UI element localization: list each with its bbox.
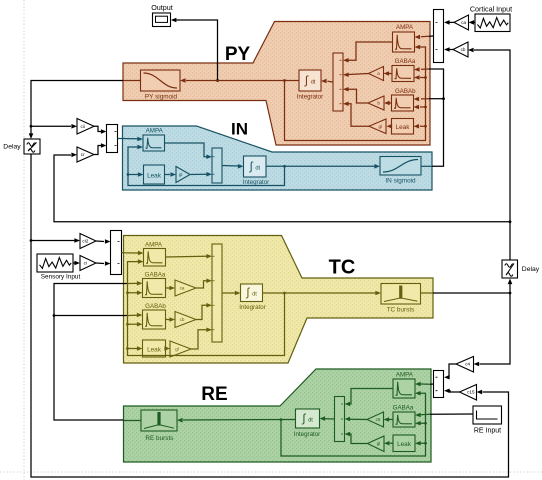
wire gain cb to PY mux in2 bbox=[450, 49, 454, 51]
mux/sum feeding PY AMPA (cortical + delayed TC) bbox=[434, 10, 444, 63]
gain gl (PY leak weight) bbox=[391, 125, 392, 127]
svg-text:GABAa: GABAa bbox=[395, 58, 416, 65]
svg-text:RE: RE bbox=[201, 384, 227, 405]
wire RE GABAa in1 from RE Input bbox=[421, 413, 431, 416]
block IN AMPA synapse bbox=[143, 135, 165, 151]
block Sensory Input noise source bbox=[37, 254, 73, 272]
wire PY GABAa gain to sum in2 bbox=[349, 74, 369, 75]
wire PY sigmoid output to left bus bbox=[31, 81, 123, 134]
gain cb TC (GABAb weight) bbox=[166, 319, 170, 321]
wire RE feedback tap GABAa in2 bbox=[424, 422, 427, 425]
block Delay right (transport delay) bbox=[502, 260, 518, 278]
gain gl TC (leak weight) bbox=[165, 348, 166, 350]
wire IN feedback bus bbox=[283, 165, 286, 168]
block RE AMPA synapse bbox=[393, 379, 415, 398]
svg-text:AMPA: AMPA bbox=[396, 371, 414, 378]
gain ci2 (delayed PY to TC) bbox=[80, 234, 96, 249]
gain ci (sensory to TC) bbox=[80, 256, 96, 271]
wire TC feedback bus bbox=[128, 262, 285, 356]
wire IN sigmoid output up to PY GABAa input bbox=[429, 69, 444, 166]
wire IN sum output to integrator bbox=[222, 165, 238, 168]
svg-text:ci2: ci2 bbox=[82, 239, 88, 244]
gain c5 RE (GABAa weight) bbox=[389, 419, 393, 421]
block PY AMPA synapse bbox=[393, 32, 415, 52]
svg-text:gl: gl bbox=[377, 441, 381, 446]
wire RE AMPA in1 from mux bbox=[421, 383, 431, 385]
svg-text:c15: c15 bbox=[467, 390, 475, 395]
block PY Integrator bbox=[299, 70, 321, 91]
block RE Input step source bbox=[473, 406, 502, 424]
wire branch RE to TC GABAb input bbox=[53, 314, 56, 317]
wire RE mux output to RE AMPA in1 bbox=[430, 383, 434, 385]
svg-text:cb: cb bbox=[461, 47, 466, 52]
wire TC feedback tap GABAb in2 bbox=[126, 323, 129, 326]
wire PY feedback tap GABAb in2 bbox=[424, 106, 427, 109]
wire gain cii to IN mux in1 bbox=[94, 126, 101, 131]
svg-text:Sensory Input: Sensory Input bbox=[41, 274, 81, 281]
wire gain ci2 to TC mux in1 bbox=[96, 240, 104, 243]
gain gl RE (leak weight) bbox=[390, 442, 393, 444]
wire TC sum output to integrator bbox=[222, 292, 235, 294]
block PY GABAa synapse bbox=[392, 66, 414, 82]
wire gain cr to IN mux in2 bbox=[94, 146, 101, 155]
svg-text:a: a bbox=[377, 71, 380, 76]
wire PY feedback tap GABAa in2 bbox=[424, 76, 427, 79]
wire RE integrator output to RE bursts bbox=[183, 419, 296, 422]
svg-text:Delay: Delay bbox=[522, 266, 540, 273]
wire branch PY output to gain cii (IN input) bbox=[30, 125, 33, 128]
region IN (interneuron population) background bbox=[123, 126, 433, 190]
wire RE feedback bus bbox=[281, 393, 426, 456]
svg-text:Integrator: Integrator bbox=[294, 431, 320, 438]
svg-text:dt: dt bbox=[252, 292, 257, 298]
wire branch IN output to PY GABAb input bbox=[442, 97, 445, 100]
block TC GABAa synapse bbox=[143, 279, 166, 298]
svg-text:gl: gl bbox=[175, 347, 179, 352]
wire IN feedback tap Leak input bbox=[127, 173, 130, 176]
page boundary dotted line horizontal bbox=[0, 471, 542, 473]
svg-text:Leak: Leak bbox=[147, 173, 162, 180]
block IN Leak bbox=[144, 165, 165, 184]
region RE (reticular population) background bbox=[124, 369, 432, 462]
block IN sigmoid bbox=[380, 157, 421, 176]
wire TC feedback tap Leak input bbox=[126, 347, 129, 350]
svg-text:IN: IN bbox=[231, 120, 248, 139]
svg-text:b: b bbox=[377, 101, 380, 106]
svg-text:Cortical Input: Cortical Input bbox=[470, 5, 512, 14]
block TC bursts bbox=[381, 284, 421, 305]
wire Sensory Input to gain ci bbox=[73, 262, 75, 264]
block RE GABAa synapse bbox=[393, 412, 415, 427]
svg-text:PY: PY bbox=[225, 44, 251, 65]
wire TC AMPA in1 from mux bbox=[122, 252, 139, 255]
mux/sum feeding RE AMPA bbox=[434, 371, 444, 398]
block Delay left (transport delay) bbox=[24, 139, 40, 154]
wire PY AMPA output to sum in1 bbox=[349, 42, 393, 60]
wire IN leak gain to sum in2 bbox=[190, 173, 207, 175]
svg-text:cb: cb bbox=[180, 317, 185, 322]
svg-text:cr: cr bbox=[81, 152, 85, 157]
gain gl IN (leak weight) bbox=[165, 174, 171, 176]
svg-text:cii: cii bbox=[80, 124, 84, 129]
wire PY GABAb in1 from IN sigmoid bbox=[421, 98, 429, 100]
wire RE bursts output to region edge bbox=[124, 420, 142, 422]
block PY sigmoid bbox=[141, 70, 181, 91]
svg-text:GABAb: GABAb bbox=[395, 88, 416, 95]
wire RE AMPA output to mux in1 bbox=[350, 389, 393, 405]
mux/sum feeding TC AMPA bbox=[111, 231, 122, 275]
block TC Integrator bbox=[241, 284, 263, 302]
block RE bursts bbox=[141, 410, 177, 431]
block IN Integrator bbox=[244, 156, 267, 177]
svg-text:PY sigmoid: PY sigmoid bbox=[145, 93, 178, 100]
svg-text:dt: dt bbox=[308, 417, 313, 423]
svg-text:Delay: Delay bbox=[3, 144, 21, 151]
wire TC feedback tap GABAa in2 bbox=[126, 291, 129, 294]
svg-text:dt: dt bbox=[311, 79, 316, 85]
svg-text:gl: gl bbox=[179, 172, 183, 177]
wire TC integrator output to TC bursts bbox=[263, 292, 376, 294]
svg-text:dt: dt bbox=[255, 165, 260, 171]
block PY GABAb synapse bbox=[392, 95, 414, 111]
wire TC bursts output to region edge bbox=[421, 292, 434, 294]
gain ca (cortical to PY) bbox=[454, 15, 469, 30]
sum block PY bbox=[333, 53, 343, 111]
gain cb (delayed TC to PY) bbox=[453, 42, 468, 57]
block RE Integrator bbox=[296, 409, 320, 428]
svg-text:TC bursts: TC bursts bbox=[387, 307, 415, 314]
wire RE feedback tap Leak input bbox=[424, 442, 427, 445]
mux/sum feeding IN AMPA bbox=[107, 125, 118, 153]
svg-text:RE bursts: RE bursts bbox=[145, 435, 173, 442]
gain ca TC (GABAa weight) bbox=[166, 287, 170, 289]
wire IN AMPA in1 from mux bbox=[118, 138, 138, 140]
svg-text:TC: TC bbox=[329, 257, 356, 279]
block TC Leak bbox=[143, 340, 166, 357]
wire PY leak gain to sum in4 bbox=[349, 104, 370, 127]
gain b (PY GABAb weight) bbox=[390, 102, 392, 104]
wire PY GABAb gain to sum in3 bbox=[349, 89, 369, 103]
svg-text:Output: Output bbox=[151, 3, 173, 12]
wire TC GABAb gain to sum in3 bbox=[196, 305, 207, 319]
block TC GABAb synapse bbox=[143, 310, 166, 329]
svg-text:RE Input: RE Input bbox=[474, 428, 501, 435]
wire RE bursts output up to TC inhibition bus bbox=[54, 284, 128, 421]
wire PY mux output to PY AMPA in1 bbox=[429, 35, 434, 37]
wire RE sum output to integrator bbox=[325, 418, 335, 420]
wire scope feed from PY integrator output bbox=[177, 20, 218, 81]
wire TC GABAb in1 from RE (left) bbox=[128, 314, 137, 316]
svg-text:Integrator: Integrator bbox=[239, 304, 265, 311]
wire TC GABAa in1 from RE (left) bbox=[128, 282, 137, 284]
wire gain ci to TC mux in2 bbox=[96, 262, 104, 265]
svg-text:AMPA: AMPA bbox=[146, 127, 164, 134]
svg-text:gl: gl bbox=[379, 124, 383, 129]
gain cii (PY to IN) bbox=[77, 119, 94, 135]
svg-text:AMPA: AMPA bbox=[396, 24, 414, 31]
wire TC output down to gain c4 bbox=[480, 293, 511, 364]
svg-text:c4: c4 bbox=[465, 362, 470, 367]
gain a (PY GABAa weight) bbox=[389, 73, 392, 75]
block PY Leak bbox=[392, 119, 414, 135]
wire PY integrator output to PY sigmoid and feedback bbox=[186, 80, 299, 82]
svg-text:Leak: Leak bbox=[396, 124, 411, 131]
wire IN integrator output to IN sigmoid bbox=[266, 165, 375, 167]
region PY (pyramidal population) background bbox=[123, 22, 430, 146]
block RE Leak bbox=[393, 435, 415, 452]
region TC (thalamocortical population) background bbox=[124, 236, 434, 364]
wire PY sum output to integrator bbox=[328, 80, 334, 83]
wire Cortical Input to gain ca bbox=[474, 21, 475, 23]
wire PY AMPA in1 from mux bbox=[421, 35, 429, 38]
wire TC GABAa gain to sum in2 bbox=[196, 281, 207, 288]
wire bottom bus to gain c15 input handled above; gain c15 to RE mux in2 bbox=[448, 391, 460, 392]
svg-text:Leak: Leak bbox=[147, 347, 162, 354]
wire TC leak gain to sum in4 bbox=[191, 330, 207, 349]
wire branch delayed PY to gain ci2 (TC input) bbox=[30, 239, 33, 242]
sum block IN bbox=[212, 148, 222, 183]
svg-text:Leak: Leak bbox=[397, 441, 412, 448]
wire delayed TC to gain cr bbox=[54, 155, 510, 222]
svg-text:ci: ci bbox=[84, 261, 87, 266]
wire RE Input block to RE GABAa in1 bbox=[430, 413, 473, 415]
wire TC AMPA output to sum in1 bbox=[166, 255, 207, 258]
wire IN sigmoid output to region edge bbox=[421, 165, 432, 167]
gain cr (delayed TC to IN) bbox=[77, 147, 94, 162]
block TC AMPA synapse bbox=[144, 249, 166, 267]
wire IN AMPA output to sum in1 bbox=[165, 143, 207, 157]
wire Delay(right) output up to gain cb and cr branch bbox=[474, 50, 510, 260]
sum block RE bbox=[335, 397, 345, 442]
gain c15 (delayed PY to RE) bbox=[460, 385, 477, 401]
svg-text:c5: c5 bbox=[376, 417, 381, 422]
svg-text:ca: ca bbox=[180, 286, 185, 291]
svg-text:ca: ca bbox=[461, 20, 466, 25]
wire gain c4 to RE mux in1 bbox=[448, 364, 457, 377]
svg-text:Integrator: Integrator bbox=[297, 93, 323, 100]
svg-text:IN sigmoid: IN sigmoid bbox=[385, 177, 416, 184]
svg-text:GABAb: GABAb bbox=[145, 303, 166, 310]
wire Delay(left) output down left bus to bottom bbox=[31, 154, 509, 477]
svg-text:Integrator: Integrator bbox=[243, 179, 269, 186]
block Cortical Input noise source bbox=[475, 14, 510, 32]
svg-text:AMPA: AMPA bbox=[145, 241, 163, 248]
wire RE GABAa gain to mux in2 bbox=[350, 418, 367, 420]
block Output scope bbox=[153, 13, 171, 27]
wire PY feedback membrane potential bus bbox=[285, 47, 426, 141]
svg-text:GABAa: GABAa bbox=[145, 271, 166, 278]
svg-text:GABAa: GABAa bbox=[393, 404, 414, 411]
wire RE leak gain to mux in3 bbox=[350, 434, 368, 444]
wire PY feedback tap Leak input bbox=[424, 125, 427, 128]
page boundary dotted line vertical bbox=[23, 0, 25, 480]
wire gain ca to PY mux in1 bbox=[450, 21, 455, 23]
gain c4 (TC to RE) bbox=[456, 357, 474, 373]
wire TC bursts output to right bus bbox=[433, 292, 510, 294]
wire PY GABAa in1 from IN sigmoid bbox=[421, 68, 429, 70]
wire TC output up into Delay(right) bottom bbox=[509, 284, 511, 294]
sum block TC bbox=[212, 244, 222, 342]
